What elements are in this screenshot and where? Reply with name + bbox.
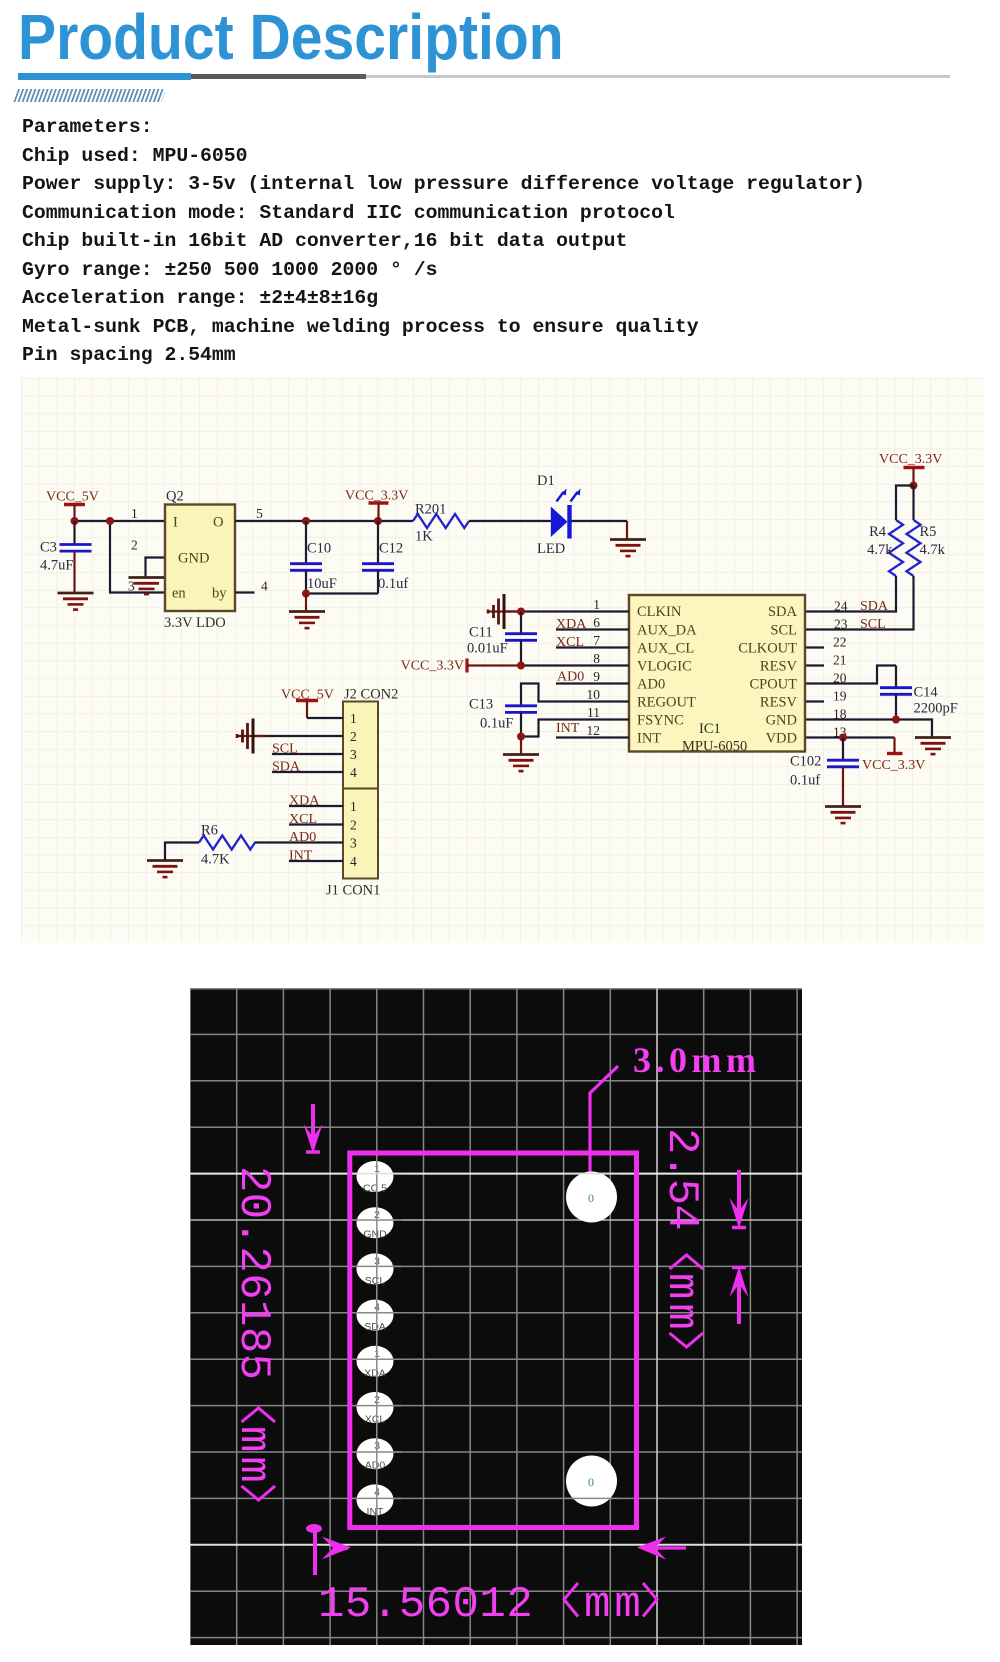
capacitor C102 bbox=[790, 738, 859, 807]
junction node C14 bottom bbox=[892, 716, 900, 724]
wire AUX_CL pin 7 bbox=[556, 646, 629, 648]
svg-text:LED: LED bbox=[537, 541, 565, 557]
svg-text:1: 1 bbox=[350, 799, 357, 814]
ground below C10 bbox=[289, 612, 325, 629]
svg-text:2200pF: 2200pF bbox=[914, 701, 958, 717]
capacitor C13 bbox=[469, 697, 537, 737]
pad 1 VCC_5V bbox=[357, 1161, 394, 1195]
svg-text:mm: mm bbox=[584, 1580, 645, 1630]
svg-text:INT: INT bbox=[637, 731, 661, 747]
svg-text:1: 1 bbox=[131, 506, 138, 521]
capacitor C10 bbox=[290, 521, 337, 594]
svg-text:INT: INT bbox=[556, 721, 580, 736]
junction node at C13 bottom bbox=[517, 733, 525, 741]
svg-text:0.01uF: 0.01uF bbox=[467, 641, 508, 657]
svg-text:2: 2 bbox=[350, 818, 357, 833]
svg-text:R201: R201 bbox=[415, 502, 446, 518]
svg-text:10: 10 bbox=[587, 687, 601, 702]
wire J2 pin 4 bbox=[272, 771, 343, 773]
svg-text:R6: R6 bbox=[201, 823, 218, 839]
power flag VCC_5V bbox=[46, 490, 99, 522]
svg-text:C13: C13 bbox=[469, 697, 493, 713]
svg-text:VLOGIC: VLOGIC bbox=[637, 659, 692, 675]
resistor R5 bbox=[907, 520, 946, 576]
svg-text:en: en bbox=[172, 586, 186, 602]
svg-text:D1: D1 bbox=[537, 473, 555, 489]
resistor R201 bbox=[413, 502, 469, 545]
svg-text:0: 0 bbox=[588, 1475, 594, 1489]
svg-text:4.7k: 4.7k bbox=[920, 542, 946, 558]
svg-text:R4: R4 bbox=[869, 524, 887, 540]
capacitor C14 bbox=[880, 666, 958, 720]
resistor R4 bbox=[867, 520, 903, 576]
svg-text:C11: C11 bbox=[469, 625, 493, 641]
title underline: dark gray segment bbox=[191, 74, 366, 79]
wire J1 pin 3 bbox=[255, 841, 344, 843]
svg-text:J2 CON2: J2 CON2 bbox=[344, 687, 398, 703]
svg-text:CLKOUT: CLKOUT bbox=[738, 641, 797, 657]
svg-text:8: 8 bbox=[593, 651, 600, 666]
svg-text:3: 3 bbox=[350, 747, 357, 762]
svg-text:4.7uF: 4.7uF bbox=[40, 558, 73, 574]
title underline: blue segment bbox=[18, 73, 191, 80]
svg-text:AUX_CL: AUX_CL bbox=[637, 641, 694, 657]
mounting hole top bbox=[566, 1172, 617, 1223]
svg-text:GND: GND bbox=[178, 551, 209, 567]
svg-text:CPOUT: CPOUT bbox=[749, 677, 797, 693]
svg-text:3: 3 bbox=[128, 579, 135, 594]
svg-text:0.1uf: 0.1uf bbox=[378, 576, 408, 592]
svg-text:SDA: SDA bbox=[860, 599, 889, 614]
pad 4 SDA bbox=[357, 1300, 394, 1334]
pad 8 INT bbox=[357, 1484, 394, 1518]
svg-text:19: 19 bbox=[833, 689, 847, 704]
junction node at en branch bbox=[106, 517, 114, 525]
ground at pin 18 bbox=[915, 738, 951, 755]
left dimension text 20.26185 (mm) bbox=[228, 1166, 278, 1500]
svg-text:VCC_3.3V: VCC_3.3V bbox=[879, 452, 942, 467]
svg-text:2: 2 bbox=[350, 729, 357, 744]
wire C13 to ground bbox=[520, 737, 522, 755]
svg-text:6: 6 bbox=[593, 615, 600, 630]
regulator Q2 3.3V LDO bbox=[164, 489, 235, 632]
svg-text:3.0mm: 3.0mm bbox=[633, 1040, 760, 1080]
wire R4 to SDA pin 24 bbox=[805, 576, 896, 612]
wire REGOUT pin 10 to C13 bbox=[521, 684, 629, 706]
power flag VCC_3.3V above C12 bbox=[345, 489, 408, 522]
wire VCC_5V to Q2 pin 1 bbox=[75, 520, 166, 522]
svg-text:SCL: SCL bbox=[860, 617, 886, 632]
ground at CLKIN bbox=[488, 594, 517, 629]
svg-text:0: 0 bbox=[588, 1191, 594, 1205]
svg-text:VCC_3.3V: VCC_3.3V bbox=[345, 489, 408, 504]
svg-text:XDA: XDA bbox=[364, 1367, 386, 1379]
PCB board outline bbox=[350, 1153, 637, 1528]
svg-text:2.54: 2.54 bbox=[656, 1128, 706, 1230]
svg-text:IC1: IC1 bbox=[699, 721, 721, 737]
hatched decoration bbox=[13, 89, 165, 103]
wire R5 to SCL pin 23 bbox=[805, 576, 914, 630]
svg-text:O: O bbox=[213, 515, 223, 531]
svg-text:3.3V LDO: 3.3V LDO bbox=[164, 615, 226, 631]
junction node at C102 bbox=[839, 734, 847, 742]
power flag VCC_3.3V for pull-ups bbox=[879, 452, 942, 486]
svg-text:0.1uF: 0.1uF bbox=[480, 716, 513, 732]
junction node at C11 top bbox=[517, 608, 525, 616]
svg-text:FSYNC: FSYNC bbox=[637, 713, 684, 729]
dimension arrow right pointing up bbox=[730, 1267, 749, 1325]
ground below C13 bbox=[503, 755, 539, 772]
ground at R6 bbox=[147, 861, 183, 878]
svg-text:24: 24 bbox=[834, 599, 848, 614]
svg-text:3: 3 bbox=[350, 836, 357, 851]
svg-text:J1 CON1: J1 CON1 bbox=[326, 883, 380, 899]
svg-text:C3: C3 bbox=[40, 540, 57, 556]
wire J1 pin 4 bbox=[289, 860, 343, 862]
svg-text:RESV: RESV bbox=[760, 659, 798, 675]
pad 3 SCL bbox=[357, 1253, 394, 1287]
svg-text:10uF: 10uF bbox=[307, 576, 337, 592]
wire AD0 pin 9 bbox=[556, 682, 629, 684]
svg-text:mm: mm bbox=[228, 1426, 278, 1487]
capacitor C11 bbox=[467, 612, 537, 666]
svg-text:21: 21 bbox=[833, 653, 847, 668]
ground below C102 bbox=[825, 807, 861, 824]
wire C10 bottom to C12 bottom bbox=[306, 592, 378, 594]
wire INT pin 12 bbox=[556, 736, 629, 738]
wire LED cathode to ground bbox=[572, 521, 628, 540]
title underline: light gray segment bbox=[366, 75, 950, 78]
pad 6 XCL bbox=[357, 1392, 394, 1426]
wire J1 pin 2 bbox=[289, 823, 343, 825]
parameters text bbox=[22, 116, 153, 138]
wire to Q2 en pin 3 bbox=[110, 521, 165, 593]
dimension arrow right pointing down bbox=[730, 1170, 749, 1229]
LED D1 bbox=[537, 473, 581, 557]
junction node at C10 bbox=[302, 517, 310, 525]
svg-text:XCL: XCL bbox=[365, 1414, 386, 1426]
bottom dimension text 15.56012 (mm) bbox=[318, 1580, 657, 1630]
svg-text:1: 1 bbox=[593, 597, 600, 612]
svg-text:18: 18 bbox=[833, 707, 847, 722]
svg-text:C12: C12 bbox=[379, 541, 403, 557]
svg-text:4.7K: 4.7K bbox=[201, 852, 230, 868]
wire C10 to ground bbox=[305, 594, 307, 612]
wire J2 pin 1 bbox=[307, 717, 343, 719]
svg-text:VCC_5V: VCC_5V bbox=[46, 490, 99, 505]
svg-text:AD0: AD0 bbox=[637, 677, 665, 693]
svg-text:I: I bbox=[173, 515, 178, 531]
capacitor C3 bbox=[40, 521, 92, 593]
svg-text:Q2: Q2 bbox=[166, 489, 184, 505]
svg-text:2: 2 bbox=[131, 538, 138, 553]
svg-text:11: 11 bbox=[587, 705, 600, 720]
svg-text:22: 22 bbox=[833, 635, 847, 650]
pad 7 AD0 bbox=[357, 1438, 394, 1472]
svg-text:RESV: RESV bbox=[760, 695, 798, 711]
svg-text:1K: 1K bbox=[415, 529, 433, 545]
wire J2 pin 3 bbox=[272, 753, 343, 755]
wire CPOUT pin 20 to C14 bbox=[805, 666, 896, 684]
svg-text:GND: GND bbox=[363, 1229, 387, 1241]
ground below C3 bbox=[58, 593, 94, 610]
svg-text:AUX_DA: AUX_DA bbox=[637, 623, 697, 639]
wire VCC to R4 bbox=[896, 486, 914, 521]
svg-text:VCC_5V: VCC_5V bbox=[281, 688, 334, 703]
svg-text:VDD: VDD bbox=[766, 731, 797, 747]
capacitor C12 bbox=[362, 521, 408, 594]
dimension arrow top-left pointing down bbox=[304, 1104, 323, 1154]
wire VLOGIC pin 8 bbox=[521, 664, 629, 666]
wire CLKIN pin 1 bbox=[504, 610, 629, 612]
svg-text:GND: GND bbox=[766, 713, 797, 729]
svg-text:SDA: SDA bbox=[768, 604, 798, 620]
power flag VCC_5V at J2 bbox=[281, 688, 334, 719]
svg-text:20: 20 bbox=[833, 671, 847, 686]
svg-text:C10: C10 bbox=[307, 541, 331, 557]
junction node at C3 bbox=[71, 517, 79, 525]
pad 5 XDA bbox=[357, 1346, 394, 1380]
wire pin 22 stub bbox=[805, 646, 824, 648]
junction node C10 bottom bbox=[302, 590, 310, 598]
wire GND pin 18 bbox=[805, 720, 932, 738]
power flag VCC_3.3V at VLOGIC bbox=[401, 659, 521, 674]
svg-text:INT: INT bbox=[367, 1506, 385, 1518]
svg-text:AD0: AD0 bbox=[365, 1460, 386, 1472]
mounting hole bottom bbox=[566, 1456, 617, 1507]
svg-text:VCC_3.3V: VCC_3.3V bbox=[401, 659, 464, 674]
svg-text:4: 4 bbox=[350, 765, 357, 780]
svg-text:MPU-6050: MPU-6050 bbox=[682, 739, 747, 755]
svg-text:23: 23 bbox=[834, 617, 848, 632]
ground right of LED bbox=[610, 540, 646, 557]
svg-text:by: by bbox=[212, 586, 227, 602]
svg-text:0.1uf: 0.1uf bbox=[790, 773, 820, 789]
wire J1 pin 1 bbox=[289, 805, 343, 807]
junction node below VCC_3.3V bbox=[910, 482, 918, 490]
svg-text:4: 4 bbox=[350, 854, 357, 869]
svg-text:15.56012: 15.56012 bbox=[318, 1580, 533, 1630]
wire AUX_DA pin 6 bbox=[556, 628, 629, 630]
connector J1 bbox=[343, 789, 378, 879]
svg-text:CC 5: CC 5 bbox=[363, 1183, 387, 1195]
ground at J2 pin 2 bbox=[237, 719, 266, 754]
ground at Q2 pin 2 bbox=[129, 578, 165, 595]
svg-text:VCC_3.3V: VCC_3.3V bbox=[862, 758, 925, 773]
svg-text:C14: C14 bbox=[914, 685, 939, 701]
power flag VCC_3.3V at VDD bbox=[862, 738, 925, 774]
junction node at C12 bbox=[374, 517, 382, 525]
svg-text:REGOUT: REGOUT bbox=[637, 695, 696, 711]
svg-text:C102: C102 bbox=[790, 754, 821, 770]
IC IC1 MPU-6050 bbox=[629, 595, 805, 755]
wire J2 pin 2 bbox=[253, 735, 343, 737]
svg-text:R5: R5 bbox=[920, 524, 937, 540]
dimension arrow bottom-left pointing right bbox=[306, 1524, 351, 1575]
wire pin 21 stub bbox=[805, 664, 824, 666]
svg-text:20.26185: 20.26185 bbox=[228, 1166, 278, 1380]
svg-text:CLKIN: CLKIN bbox=[637, 604, 682, 620]
svg-text:4: 4 bbox=[261, 579, 268, 594]
svg-text:AD0: AD0 bbox=[557, 670, 584, 685]
svg-text:mm: mm bbox=[656, 1273, 706, 1334]
junction node at C11 bottom bbox=[517, 662, 525, 670]
svg-text:SDA: SDA bbox=[364, 1321, 386, 1333]
svg-text:12: 12 bbox=[587, 723, 601, 738]
resistor R6 bbox=[199, 823, 255, 868]
pad 2 GND bbox=[357, 1207, 394, 1241]
title bbox=[18, 0, 564, 74]
wire R6 to ground bbox=[165, 843, 199, 861]
wire Q2 pin 4 stub bbox=[235, 591, 255, 593]
svg-text:1: 1 bbox=[350, 711, 357, 726]
svg-text:SCL: SCL bbox=[770, 623, 797, 639]
dimension arrow bottom-right pointing left bbox=[637, 1537, 686, 1560]
wire VDD pin 13 bbox=[805, 736, 895, 738]
wire FSYNC pin 11 bbox=[521, 720, 629, 737]
svg-text:7: 7 bbox=[593, 633, 600, 648]
right dimension text 2.54 (mm) bbox=[656, 1128, 706, 1347]
wire VCC to R5 bbox=[912, 486, 914, 521]
svg-text:4.7k: 4.7k bbox=[867, 542, 893, 558]
wire Q2 output pin 5 bbox=[235, 520, 413, 522]
callout leader 3.0mm bbox=[590, 1040, 760, 1176]
connector J2 bbox=[343, 702, 378, 789]
wire R201 to LED bbox=[469, 520, 551, 522]
svg-text:9: 9 bbox=[593, 669, 600, 684]
svg-text:5: 5 bbox=[256, 506, 263, 521]
wire pin 19 stub bbox=[805, 700, 824, 702]
wire Q2 pin 2 to ground bbox=[146, 558, 166, 578]
svg-text:SCL: SCL bbox=[365, 1275, 386, 1287]
